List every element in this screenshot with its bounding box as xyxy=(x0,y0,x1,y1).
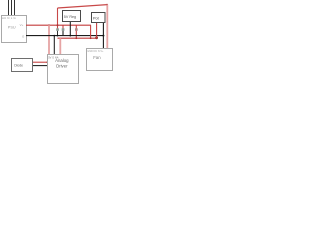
node junction (76.3,38.2) xyxy=(75,37,77,39)
wire AC line 1 xyxy=(8,0,10,16)
wire red Diode output xyxy=(33,61,48,63)
wire red V+ bus y=25 xyxy=(26,24,91,26)
wire pale red vertical x107 down to Fan xyxy=(106,5,108,49)
node junction (57.5,35.5) xyxy=(57,35,59,37)
svg-text:PSU: PSU xyxy=(8,25,16,29)
node top-right corner dot xyxy=(106,4,108,6)
node junction (70,35.5) xyxy=(69,35,71,37)
wire red top loop horizontal xyxy=(58,5,108,8)
wire red line y=38.2 xyxy=(58,37,97,39)
wire red stub x76 pad down to red line xyxy=(75,31,77,39)
svg-text:Diode: Diode xyxy=(14,64,23,68)
wire pale red vertical x48.7 bus to Analog Driver xyxy=(48,25,50,54)
PSU box xyxy=(2,16,27,43)
pin pad 3 xyxy=(75,28,78,31)
node dot at Analog Driver left pin xyxy=(47,61,49,63)
node junction (54.3,35.5) xyxy=(53,35,55,37)
svg-text:GND DC N V+: GND DC N V+ xyxy=(87,50,104,53)
Analog Driver box xyxy=(48,55,79,84)
node junction (96.6,38.2) xyxy=(95,36,98,39)
svg-text:Analog: Analog xyxy=(55,58,69,63)
node junction dot (48.7,25) xyxy=(48,24,50,26)
wire black regulator middle pin x70 xyxy=(69,22,71,36)
svg-text:AC N L G: AC N L G xyxy=(2,16,16,20)
wire black Diode ground xyxy=(33,65,48,67)
wire AC line 2 xyxy=(11,0,13,16)
svg-text:V+: V+ xyxy=(20,23,24,27)
regulator U1 5V Reg box xyxy=(63,11,81,22)
wire red stub x76 bus to pad xyxy=(75,25,77,28)
wire red riser x91.5 bus to red line xyxy=(90,25,92,38)
svg-text:Driver: Driver xyxy=(56,63,68,68)
node junction (91.5,38.2) xyxy=(90,37,92,39)
diode D1 box xyxy=(12,59,33,72)
svg-text:Pot: Pot xyxy=(93,17,100,21)
wire black Pot right pin x103.4 down to Fan xyxy=(102,23,104,49)
Fan box xyxy=(87,49,113,71)
wire dark stub x63 pad to black bus xyxy=(62,31,64,36)
node junction dot (57.5,25) xyxy=(57,24,59,26)
wire red stub x63 bus to pad xyxy=(62,25,64,28)
svg-text:5V Reg: 5V Reg xyxy=(64,15,76,19)
svg-text:Fan: Fan xyxy=(93,55,101,60)
wire black ground bus y=35.5 xyxy=(26,35,103,37)
wire red Pot left pin x96.6 xyxy=(96,23,98,39)
wire dark stub x57.5 pad to black bus xyxy=(57,31,59,36)
pin pad 1 xyxy=(56,28,59,31)
pin pad 2 xyxy=(62,28,65,31)
wire AC line 3 xyxy=(14,0,16,16)
wire black riser x54.3 bus to Analog Driver pin xyxy=(53,36,55,55)
wire pale red riser x59.8 to Analog Driver pin xyxy=(59,38,61,54)
potentiometer Pot box xyxy=(92,13,106,23)
node junction (103.4,35.6) xyxy=(102,35,104,37)
wire red vertical x57 from top to pad xyxy=(57,8,59,29)
